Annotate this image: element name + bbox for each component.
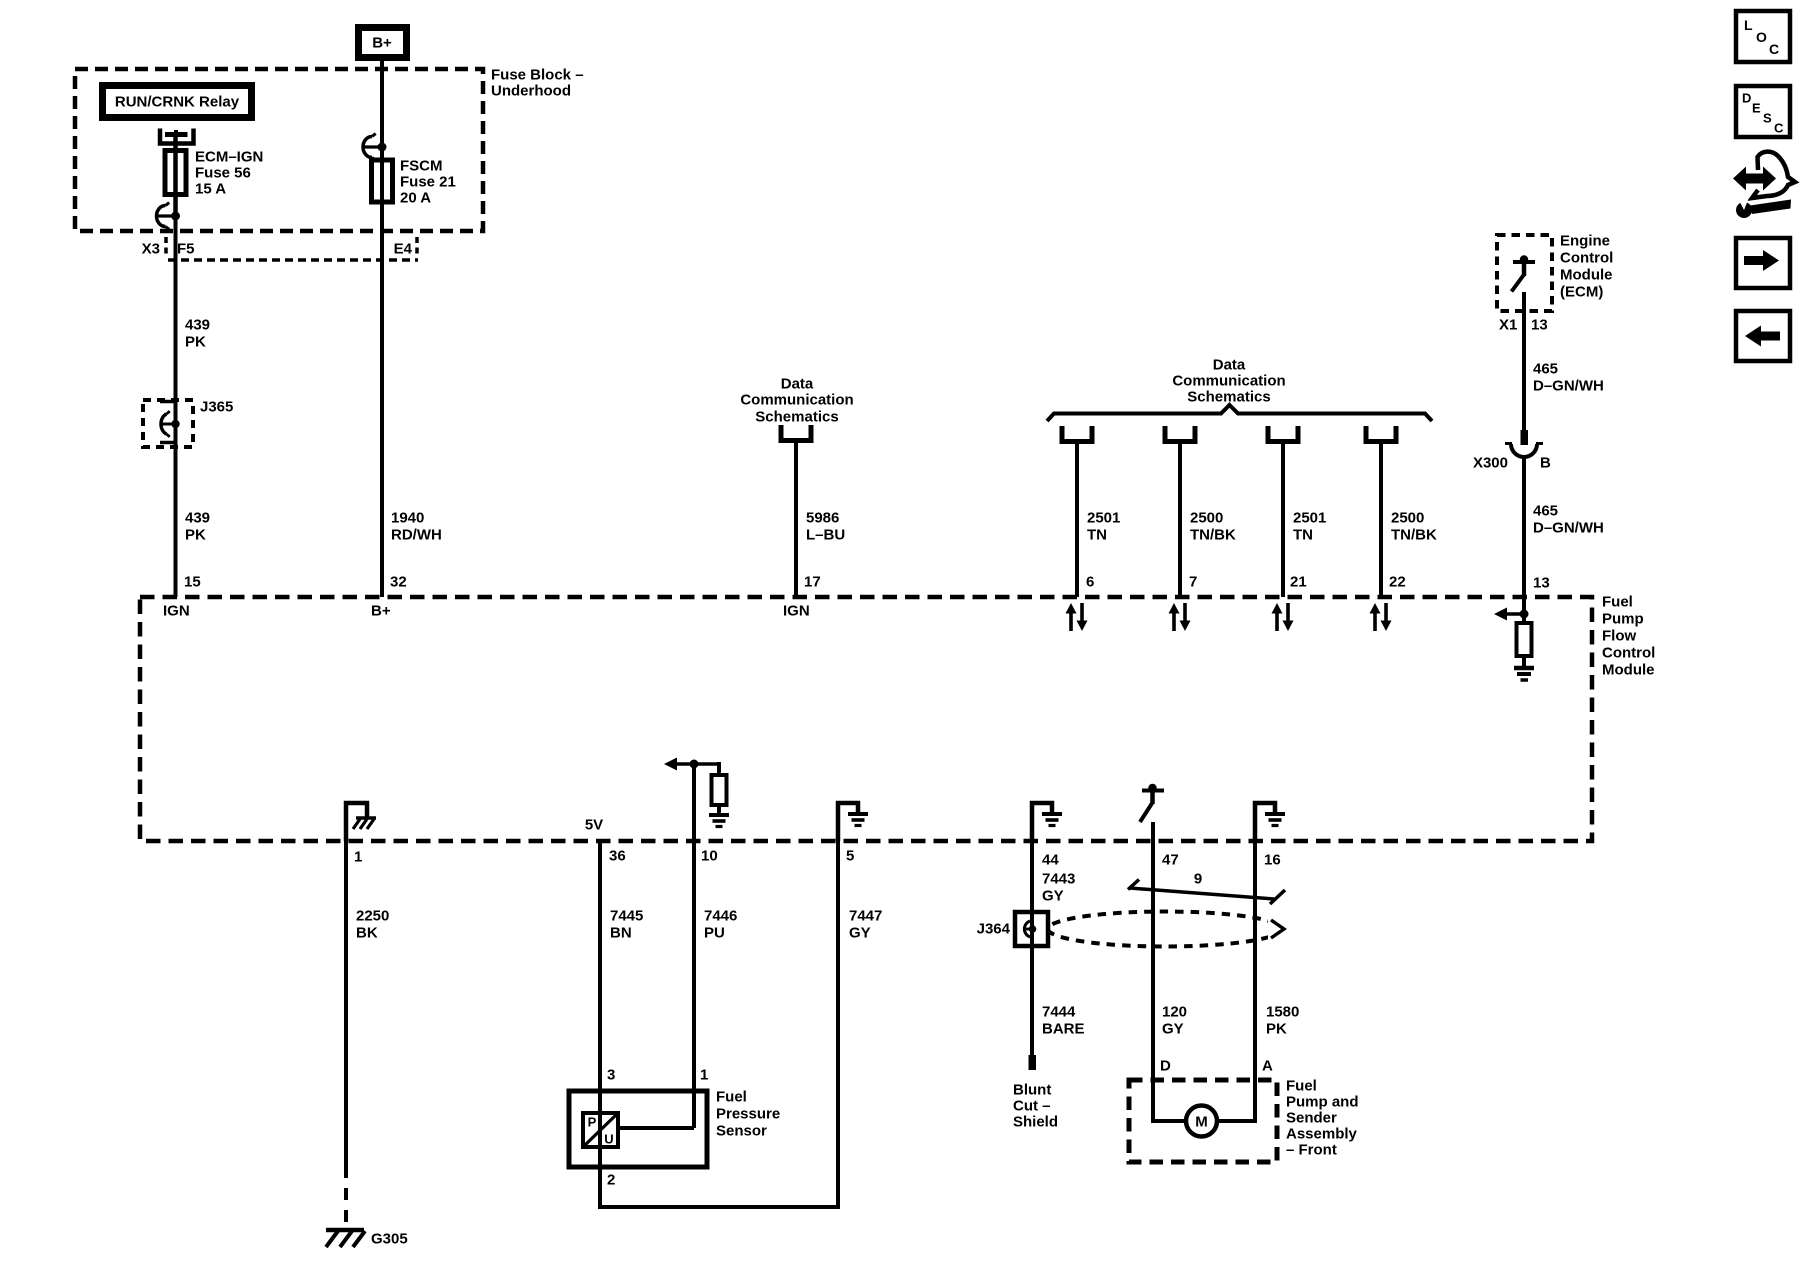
off-page bracket data wire 1 xyxy=(1062,426,1092,442)
svg-text:Sender: Sender xyxy=(1286,1110,1337,1127)
svg-text:2250: 2250 xyxy=(356,908,389,925)
label 5986 L-BU xyxy=(806,510,845,544)
connector J364 xyxy=(1015,912,1048,946)
fuse block underhood dashed box xyxy=(75,69,483,231)
svg-text:O: O xyxy=(1756,29,1767,45)
shield tip gap xyxy=(1268,912,1294,946)
shield tip chevron xyxy=(1271,920,1284,938)
svg-text:Control: Control xyxy=(1602,645,1655,662)
svg-text:1: 1 xyxy=(354,849,362,866)
svg-text:Communication: Communication xyxy=(1172,373,1285,390)
wire 7447 GY xyxy=(600,841,838,1207)
ECM dashed box xyxy=(1497,235,1552,311)
svg-text:5V: 5V xyxy=(585,817,603,834)
label 1580 PK xyxy=(1266,1004,1299,1038)
comm arrows pin 7 xyxy=(1169,603,1191,631)
svg-text:7: 7 xyxy=(1189,574,1197,591)
svg-text:20 A: 20 A xyxy=(400,190,431,207)
svg-text:5: 5 xyxy=(846,848,854,865)
relay RUN/CRNK xyxy=(103,86,252,118)
label 7443 GY xyxy=(1042,871,1075,905)
icon LOC box xyxy=(1736,11,1790,62)
svg-text:X300: X300 xyxy=(1473,455,1508,472)
off-page connector bracket (left data) xyxy=(781,425,811,441)
comm arrows pin 6 xyxy=(1066,603,1088,631)
svg-text:U: U xyxy=(604,1132,613,1147)
label Data Communication Schematics (left) xyxy=(740,376,853,426)
svg-text:F5: F5 xyxy=(177,241,195,258)
callout 9 line xyxy=(1128,880,1285,905)
svg-text:Engine: Engine xyxy=(1560,233,1610,250)
svg-text:2500: 2500 xyxy=(1190,510,1223,527)
svg-text:D: D xyxy=(1742,91,1751,106)
svg-text:Data: Data xyxy=(781,376,814,393)
svg-text:2: 2 xyxy=(607,1172,615,1189)
connector terminal hook at F5 xyxy=(157,203,181,230)
svg-text:IGN: IGN xyxy=(163,603,190,620)
svg-text:44: 44 xyxy=(1042,852,1059,869)
wire 465 upper xyxy=(1522,292,1526,431)
svg-text:PU: PU xyxy=(704,925,725,942)
svg-text:Blunt: Blunt xyxy=(1013,1082,1051,1099)
svg-text:B+: B+ xyxy=(371,603,391,620)
label 465 D-GN/WH upper xyxy=(1533,361,1604,395)
label Fuel Pump Flow Control Module xyxy=(1602,594,1655,679)
svg-text:BARE: BARE xyxy=(1042,1021,1085,1038)
svg-text:ECM–IGN: ECM–IGN xyxy=(195,149,263,166)
svg-text:Control: Control xyxy=(1560,250,1613,267)
svg-text:TN/BK: TN/BK xyxy=(1391,527,1437,544)
svg-text:2500: 2500 xyxy=(1391,510,1424,527)
svg-text:Pump and: Pump and xyxy=(1286,1094,1359,1111)
svg-text:X1: X1 xyxy=(1499,317,1517,334)
label 2500 TN/BK (4) xyxy=(1391,510,1437,544)
off-page bracket data wire 3 xyxy=(1268,426,1298,442)
pressure transducer P/U symbol xyxy=(583,1113,618,1147)
ECM internal switch contact xyxy=(1512,255,1536,291)
svg-text:22: 22 xyxy=(1389,574,1406,591)
pump wires to motor xyxy=(1153,1080,1255,1121)
svg-text:Module: Module xyxy=(1560,267,1613,284)
wire 2501 TN (1) xyxy=(1075,441,1079,597)
label 2500 TN/BK (2) xyxy=(1190,510,1236,544)
resistor pin10 internal xyxy=(712,775,727,815)
svg-text:C: C xyxy=(1774,121,1784,136)
label 7447 GY xyxy=(849,908,882,942)
svg-text:47: 47 xyxy=(1162,852,1179,869)
svg-text:1940: 1940 xyxy=(391,510,424,527)
svg-text:7446: 7446 xyxy=(704,908,737,925)
svg-text:L: L xyxy=(1744,17,1753,33)
svg-text:IGN: IGN xyxy=(783,603,810,620)
svg-text:439: 439 xyxy=(185,317,210,334)
label Fuse Block - Underhood xyxy=(491,67,584,100)
label 2250 BK xyxy=(356,908,389,942)
svg-text:15 A: 15 A xyxy=(195,181,226,198)
svg-text:B+: B+ xyxy=(372,35,392,52)
wire 7445 BN xyxy=(598,841,602,1167)
svg-text:– Front: – Front xyxy=(1286,1142,1337,1159)
label 7444 BARE xyxy=(1042,1004,1085,1038)
fuel pump flow control module dashed box xyxy=(140,597,1592,841)
svg-text:RD/WH: RD/WH xyxy=(391,527,442,544)
pin 47 internal switch xyxy=(1140,784,1164,822)
label FSCM Fuse 21 20 A xyxy=(400,158,456,207)
svg-text:13: 13 xyxy=(1533,575,1550,592)
svg-text:C: C xyxy=(1769,41,1779,57)
svg-text:B: B xyxy=(1540,455,1551,472)
svg-text:G305: G305 xyxy=(371,1231,408,1248)
fuse F56 ECM-IGN 15A xyxy=(165,134,186,216)
svg-text:Underhood: Underhood xyxy=(491,83,571,100)
svg-text:120: 120 xyxy=(1162,1004,1187,1021)
svg-text:TN: TN xyxy=(1087,527,1107,544)
svg-text:PK: PK xyxy=(185,527,206,544)
label 465 D-GN/WH lower xyxy=(1533,503,1604,537)
svg-text:D–GN/WH: D–GN/WH xyxy=(1533,378,1604,395)
svg-text:GY: GY xyxy=(1042,888,1064,905)
svg-text:Module: Module xyxy=(1602,662,1655,679)
label X1 13 xyxy=(1499,317,1548,334)
svg-text:7444: 7444 xyxy=(1042,1004,1076,1021)
svg-text:7443: 7443 xyxy=(1042,871,1075,888)
svg-text:A: A xyxy=(1262,1058,1273,1075)
wire 5986 L-BU xyxy=(794,440,798,597)
label 439 PK lower xyxy=(185,510,210,544)
svg-text:2501: 2501 xyxy=(1087,510,1120,527)
label 120 GY xyxy=(1162,1004,1187,1038)
wire 439 PK (upper) xyxy=(174,216,178,597)
fuel pressure sensor box xyxy=(569,1091,707,1167)
svg-text:Fuel: Fuel xyxy=(716,1089,747,1106)
svg-text:Fuse 21: Fuse 21 xyxy=(400,174,456,191)
sensor internal wire xyxy=(618,1126,694,1130)
svg-text:Sensor: Sensor xyxy=(716,1123,767,1140)
pass-through connector X300 xyxy=(1505,430,1543,457)
label 1940 RD/WH xyxy=(391,510,442,544)
blunt cut terminal xyxy=(1029,1055,1037,1070)
svg-text:9: 9 xyxy=(1194,871,1202,888)
label X300 B xyxy=(1473,455,1551,472)
comm arrows pin 21 xyxy=(1272,603,1294,631)
svg-text:6: 6 xyxy=(1086,574,1094,591)
svg-text:5986: 5986 xyxy=(806,510,839,527)
svg-text:16: 16 xyxy=(1264,852,1281,869)
svg-text:1580: 1580 xyxy=(1266,1004,1299,1021)
svg-text:15: 15 xyxy=(184,574,201,591)
svg-text:D–GN/WH: D–GN/WH xyxy=(1533,520,1604,537)
svg-text:E: E xyxy=(1752,101,1761,116)
icon DESC box xyxy=(1736,86,1790,137)
svg-text:Fuel: Fuel xyxy=(1286,1078,1317,1095)
svg-text:J364: J364 xyxy=(977,921,1011,938)
svg-text:TN: TN xyxy=(1293,527,1313,544)
svg-text:10: 10 xyxy=(701,848,718,865)
svg-text:J365: J365 xyxy=(200,399,233,416)
svg-text:D: D xyxy=(1160,1058,1171,1075)
wire 2250 BK xyxy=(344,841,348,1228)
fuse F21 FSCM 20A xyxy=(372,147,393,260)
comm arrows pin 22 xyxy=(1370,603,1392,631)
svg-text:TN/BK: TN/BK xyxy=(1190,527,1236,544)
svg-text:Pump: Pump xyxy=(1602,611,1644,628)
resistor pin13 internal xyxy=(1517,614,1532,668)
label 7445 BN xyxy=(610,908,643,942)
shield ellipse xyxy=(1048,912,1282,947)
svg-text:32: 32 xyxy=(390,574,407,591)
svg-text:Fuse 56: Fuse 56 xyxy=(195,165,251,182)
label Engine Control Module (ECM) xyxy=(1560,233,1613,301)
svg-text:13: 13 xyxy=(1531,317,1548,334)
wire 7443 GY xyxy=(1030,841,1034,946)
motor M xyxy=(1186,1106,1217,1137)
svg-text:P: P xyxy=(588,1115,597,1130)
label Data Communication Schematics (right) xyxy=(1172,357,1285,406)
svg-text:Assembly: Assembly xyxy=(1286,1126,1358,1143)
svg-text:Fuse Block –: Fuse Block – xyxy=(491,67,584,84)
icon forward arrow box xyxy=(1736,238,1790,288)
label 2501 TN (3) xyxy=(1293,510,1326,544)
svg-text:439: 439 xyxy=(185,510,210,527)
label 439 PK upper xyxy=(185,317,210,351)
svg-text:X3: X3 xyxy=(142,241,160,258)
wire 2501 TN (3) xyxy=(1281,441,1285,597)
pin 1 internal chassis ground xyxy=(346,803,376,841)
svg-text:Schematics: Schematics xyxy=(755,409,838,426)
terminal clip below relay xyxy=(160,129,194,144)
svg-text:7445: 7445 xyxy=(610,908,643,925)
wire 7446 PU xyxy=(692,764,696,1128)
svg-text:PK: PK xyxy=(185,334,206,351)
svg-text:2501: 2501 xyxy=(1293,510,1326,527)
wire 7444 BARE xyxy=(1030,946,1034,1056)
off-page bracket data wire 2 xyxy=(1165,426,1195,442)
pin 16 internal ground xyxy=(1255,803,1285,841)
splice J365 xyxy=(143,400,193,447)
node pin13 internal junction xyxy=(1494,608,1529,621)
wire 120 GY xyxy=(1151,822,1155,1080)
brace over data wires xyxy=(1047,405,1432,421)
svg-text:Data: Data xyxy=(1213,357,1246,374)
off-page bracket data wire 4 xyxy=(1366,426,1396,442)
svg-text:FSCM: FSCM xyxy=(400,158,443,175)
svg-text:21: 21 xyxy=(1290,574,1307,591)
power terminal B+ xyxy=(359,28,407,58)
svg-text:465: 465 xyxy=(1533,503,1558,520)
svg-text:(ECM): (ECM) xyxy=(1560,284,1603,301)
label 7446 PU xyxy=(704,908,737,942)
svg-text:Communication: Communication xyxy=(740,392,853,409)
wire 2500 TN/BK (2) xyxy=(1178,441,1182,597)
wire 1940 RD/WH xyxy=(380,260,384,597)
pin 10 internal junction arrow xyxy=(664,758,719,777)
ground pin10 internal xyxy=(709,815,729,827)
connector row X3 F5 E4 xyxy=(166,237,418,260)
pin 44 internal ground xyxy=(1032,803,1062,841)
svg-text:M: M xyxy=(1195,1114,1208,1131)
icon hotlink arrows and wrench xyxy=(1733,152,1795,218)
svg-text:Shield: Shield xyxy=(1013,1114,1058,1131)
svg-text:17: 17 xyxy=(804,574,821,591)
svg-text:465: 465 xyxy=(1533,361,1558,378)
wire B+ feed to fuse block xyxy=(380,61,384,147)
svg-text:Cut –: Cut – xyxy=(1013,1098,1051,1115)
svg-text:PK: PK xyxy=(1266,1021,1287,1038)
fuel pump assembly dashed box xyxy=(1129,1080,1277,1162)
svg-text:GY: GY xyxy=(1162,1021,1184,1038)
svg-text:RUN/CRNK Relay: RUN/CRNK Relay xyxy=(115,94,240,111)
icon back arrow box xyxy=(1736,311,1790,361)
svg-text:1: 1 xyxy=(700,1067,708,1084)
connector terminal hook at FSCM fuse xyxy=(363,134,387,161)
label 2501 TN (1) xyxy=(1087,510,1120,544)
svg-text:Flow: Flow xyxy=(1602,628,1636,645)
ground pin13 internal xyxy=(1514,668,1534,680)
label Fuel Pressure Sensor xyxy=(716,1089,780,1140)
wire 2500 TN/BK (4) xyxy=(1379,441,1383,597)
wire 465 lower xyxy=(1522,456,1526,614)
svg-text:L–BU: L–BU xyxy=(806,527,845,544)
svg-text:3: 3 xyxy=(607,1067,615,1084)
wire 1580 PK xyxy=(1253,841,1257,1080)
ground G305 xyxy=(326,1230,365,1247)
svg-text:36: 36 xyxy=(609,848,626,865)
pin 5 internal ground xyxy=(838,803,868,841)
label Blunt Cut Shield xyxy=(1013,1082,1058,1131)
svg-text:GY: GY xyxy=(849,925,871,942)
svg-text:7447: 7447 xyxy=(849,908,882,925)
svg-text:Pressure: Pressure xyxy=(716,1106,780,1123)
svg-text:Fuel: Fuel xyxy=(1602,594,1633,611)
svg-text:S: S xyxy=(1763,111,1772,126)
label Fuel Pump and Sender Assembly Front xyxy=(1286,1078,1359,1159)
svg-text:BN: BN xyxy=(610,925,632,942)
svg-text:E4: E4 xyxy=(394,241,413,258)
label ECM-IGN Fuse 56 15 A xyxy=(195,149,263,198)
svg-text:BK: BK xyxy=(356,925,378,942)
